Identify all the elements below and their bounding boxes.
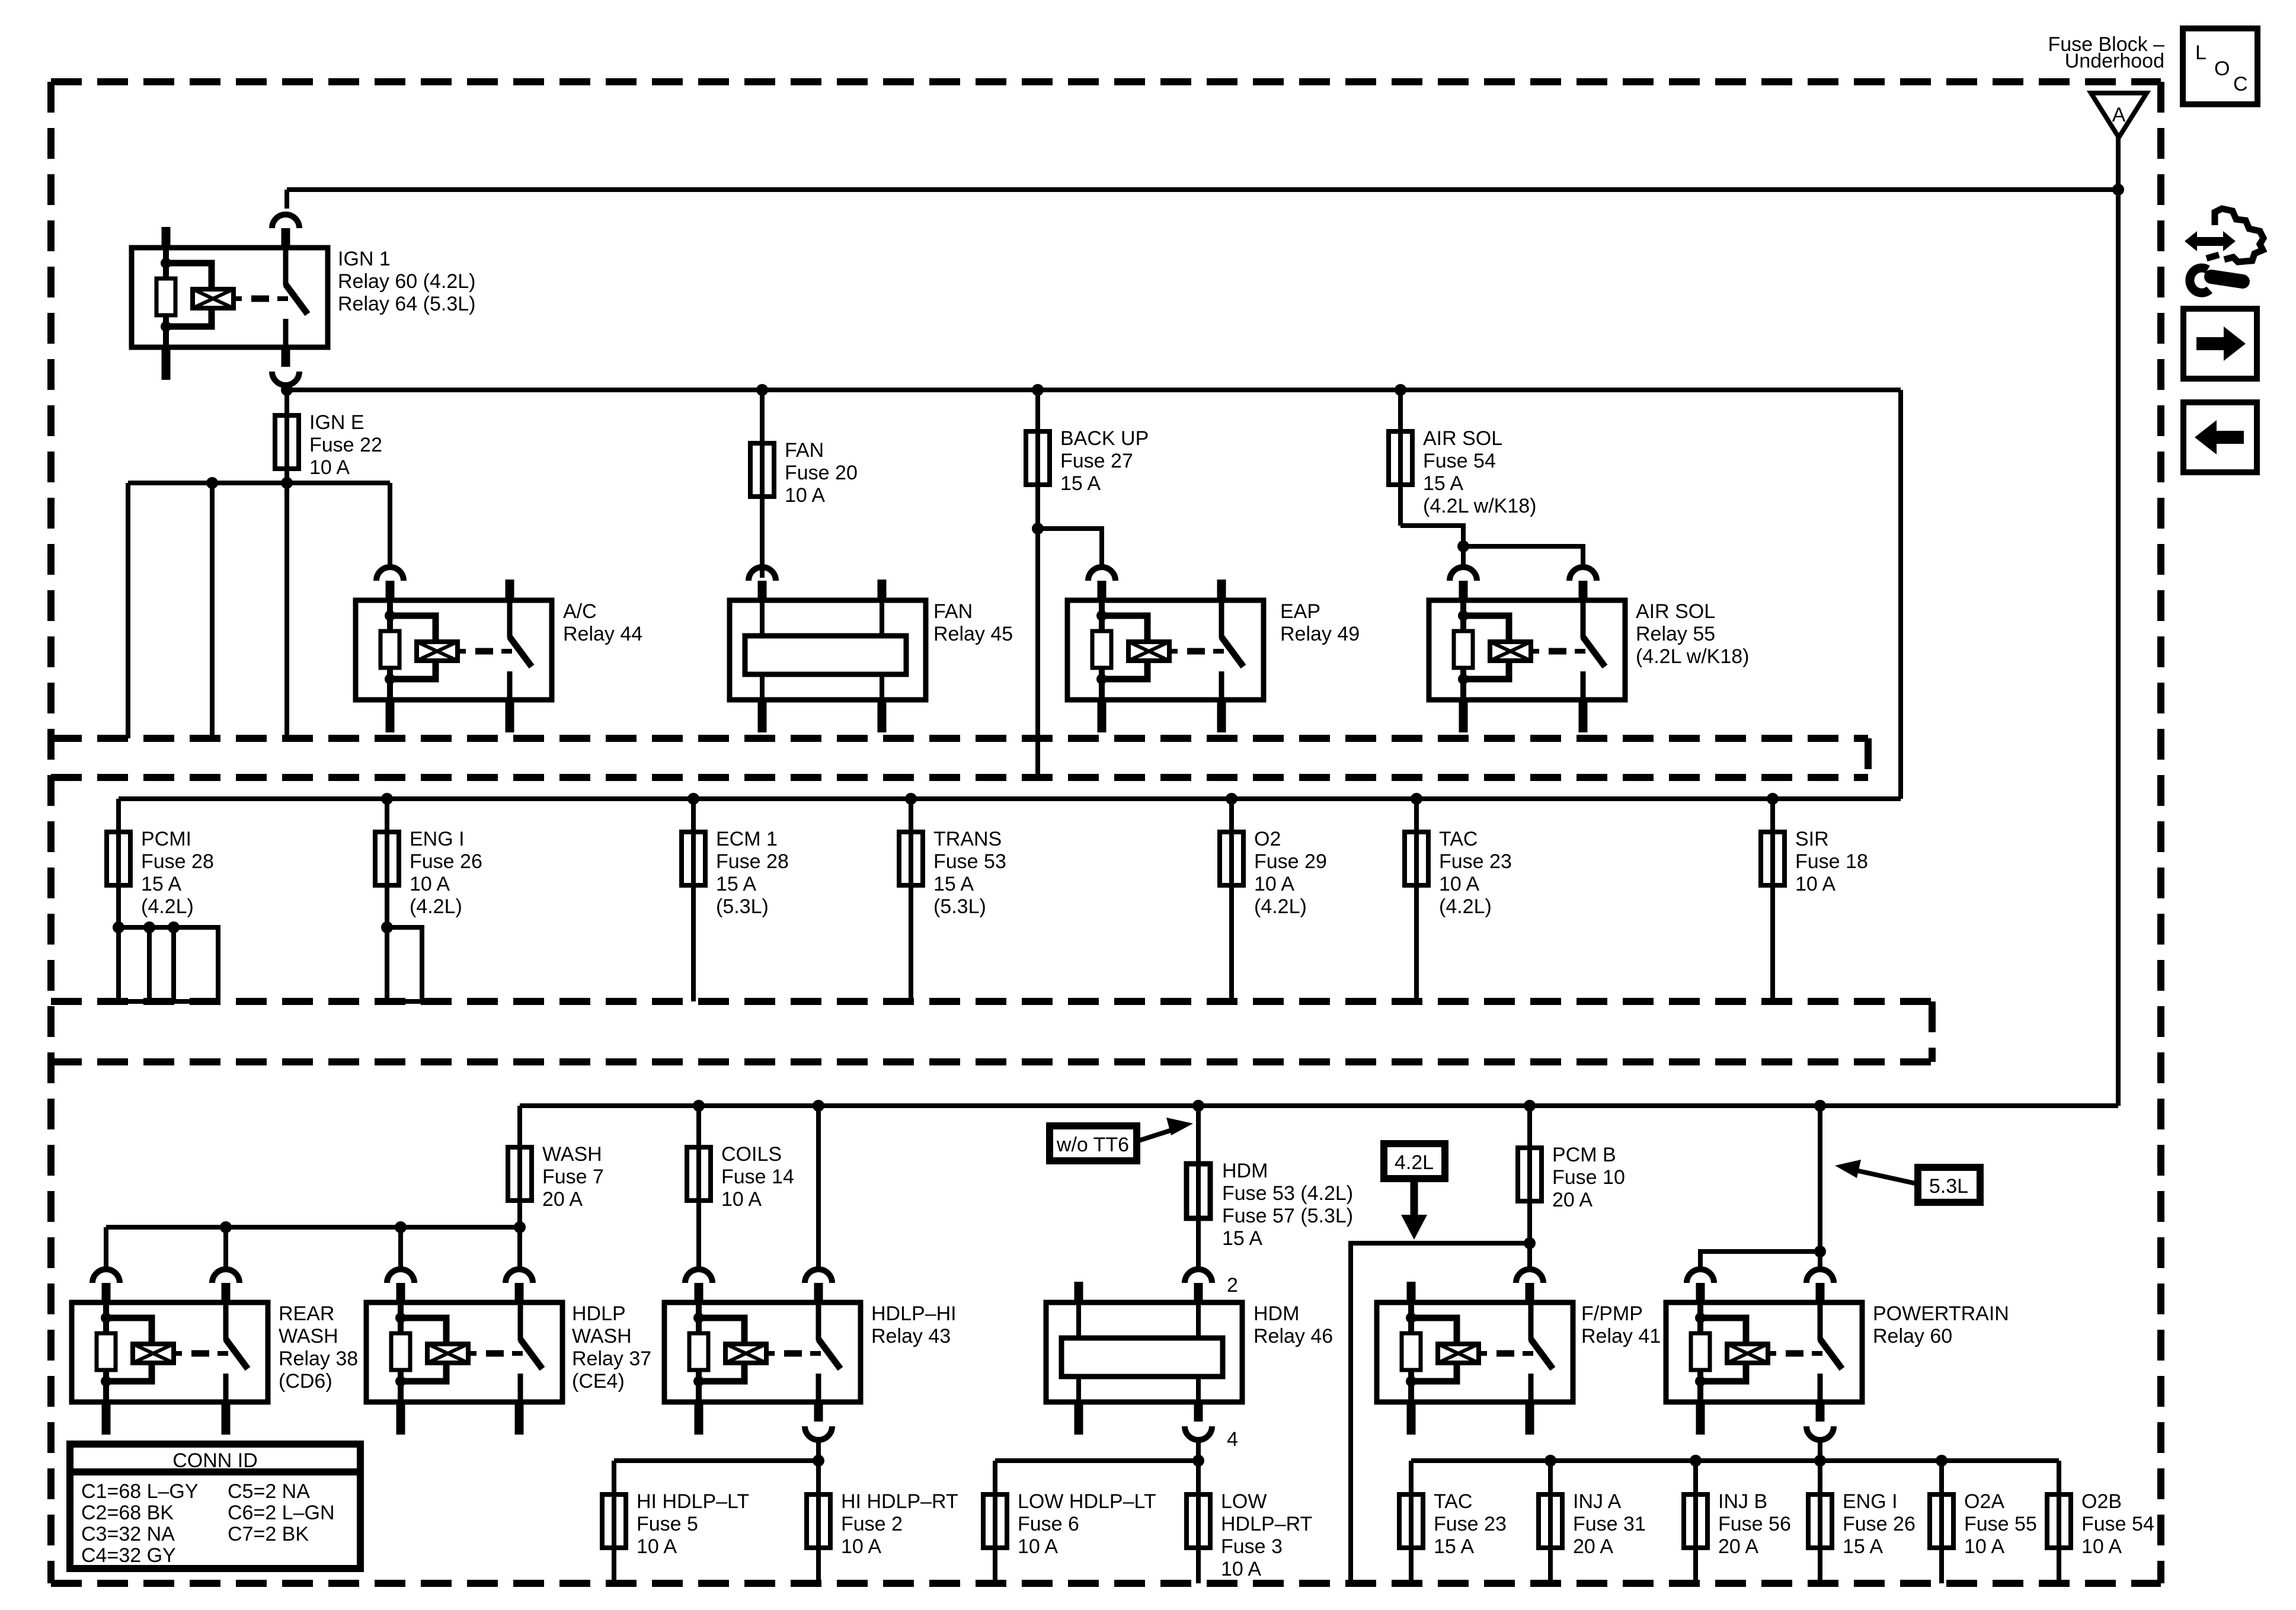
svg-text:10 A: 10 A <box>1439 873 1479 895</box>
wire HDLP-HI switch output <box>816 1441 821 1583</box>
svg-text:20 A: 20 A <box>1552 1189 1593 1211</box>
wire right side down to middle fuse bus <box>1898 390 1903 799</box>
label 4.2L with arrow <box>1384 1144 1445 1179</box>
svg-text:Fuse 2: Fuse 2 <box>841 1513 903 1535</box>
connector run rectangle 1 below PCMI <box>119 927 149 1001</box>
svg-text:10 A: 10 A <box>721 1188 762 1211</box>
svg-text:C2=68 BK: C2=68 BK <box>81 1502 174 1524</box>
svg-text:TRANS: TRANS <box>933 828 1002 850</box>
svg-text:A: A <box>2112 104 2126 126</box>
wire to AIR SOL fuse <box>1395 384 1406 396</box>
relay HDM Relay 46 (motor relay) <box>1046 1269 1242 1440</box>
svg-text:Fuse 53: Fuse 53 <box>933 850 1006 873</box>
fuse IGN E Fuse 22 10 A <box>275 415 299 469</box>
relay F/PMP Relay 41 <box>1377 1269 1573 1435</box>
bus from IGN 1 relay output <box>287 388 1901 392</box>
fuse block outer dashed border bottom edge <box>51 1580 2161 1587</box>
dashed divider jog between section 2 and 3 <box>1929 1001 1936 1062</box>
svg-text:WASH: WASH <box>572 1325 632 1347</box>
fuse COILS Fuse 14 <box>696 1106 701 1269</box>
svg-text:10 A: 10 A <box>410 873 450 895</box>
svg-text:EAP: EAP <box>1280 600 1320 623</box>
wire stub down from IGN E output 1 <box>126 483 130 738</box>
svg-text:4: 4 <box>1227 1428 1238 1451</box>
relay AIR SOL Relay 55 <box>1429 567 1625 732</box>
svg-text:Relay 46: Relay 46 <box>1253 1325 1333 1347</box>
svg-text:POWERTRAIN: POWERTRAIN <box>1873 1302 2009 1325</box>
svg-text:15 A: 15 A <box>716 873 756 895</box>
fuse ECM 1 Fuse 28 <box>691 799 696 1001</box>
left-arrow legend box <box>2183 402 2257 472</box>
svg-text:IGN 1: IGN 1 <box>338 248 391 270</box>
wire to HDLP WASH coil <box>398 1227 403 1269</box>
connector A triangle <box>2091 93 2147 137</box>
fuse PCM B Fuse 10 <box>1527 1106 1532 1269</box>
svg-text:LOW HDLP–LT: LOW HDLP–LT <box>1018 1490 1156 1513</box>
vehicle/service icon <box>2185 209 2263 293</box>
svg-text:F/PMP: F/PMP <box>1581 1302 1643 1325</box>
svg-text:L: L <box>2195 41 2207 64</box>
svg-text:Fuse 31: Fuse 31 <box>1573 1513 1646 1535</box>
svg-text:10 A: 10 A <box>1254 873 1294 895</box>
svg-text:Fuse 54: Fuse 54 <box>2081 1513 2154 1535</box>
fuse TAC Fuse 23 (section 2) <box>1414 799 1419 1001</box>
svg-text:10 A: 10 A <box>785 484 825 507</box>
fuse BACK UP Fuse 27 15 A <box>1026 431 1050 485</box>
svg-text:10 A: 10 A <box>2081 1535 2122 1558</box>
right-arrow legend box <box>2183 309 2257 379</box>
svg-text:15 A: 15 A <box>1434 1535 1474 1558</box>
bottom fuse row bus <box>1411 1458 2059 1463</box>
fuse O2 Fuse 29 <box>1229 799 1234 1001</box>
fuse ENG I Fuse 26 (bottom) <box>1818 1461 1822 1583</box>
svg-text:COILS: COILS <box>721 1143 782 1166</box>
svg-text:SIR: SIR <box>1795 828 1829 850</box>
wire AIR SOL fuse to relay pins <box>1400 526 1463 546</box>
middle section fuse bus <box>119 796 1901 801</box>
fuse INJ B Fuse 56 <box>1693 1461 1698 1583</box>
svg-text:C: C <box>2233 73 2248 95</box>
svg-text:(4.2L): (4.2L) <box>141 895 194 918</box>
svg-text:C1=68 L–GY: C1=68 L–GY <box>81 1480 199 1503</box>
svg-text:5.3L: 5.3L <box>1929 1175 1968 1198</box>
dashed divider: section 2 top edge <box>51 774 1868 781</box>
svg-text:Fuse 54: Fuse 54 <box>1423 450 1496 472</box>
relay IGN 1 (Relay 60 / Relay 64) <box>132 215 328 385</box>
svg-text:Fuse 29: Fuse 29 <box>1254 850 1327 873</box>
label w/o TT6 with arrow <box>1050 1126 1137 1161</box>
fuse LOW HDLP-RT Fuse 3 <box>1187 1494 1210 1548</box>
svg-text:10 A: 10 A <box>1795 873 1835 895</box>
wire to BACK UP fuse <box>1032 384 1044 396</box>
wire stub down from IGN E output 3 <box>284 483 289 738</box>
dashed divider: section 1 bottom edge <box>51 735 1868 742</box>
fuse SIR Fuse 18 <box>1770 799 1775 1001</box>
fuse O2A Fuse 55 <box>1939 1461 1944 1583</box>
svg-text:BACK UP: BACK UP <box>1060 427 1149 450</box>
svg-text:Fuse 28: Fuse 28 <box>716 850 789 873</box>
svg-text:Fuse 23: Fuse 23 <box>1434 1513 1507 1535</box>
svg-text:ECM 1: ECM 1 <box>716 828 778 850</box>
svg-text:20 A: 20 A <box>1573 1535 1613 1558</box>
wire bus to POWERTRAIN relay <box>1818 1106 1822 1269</box>
svg-text:O: O <box>2214 57 2230 80</box>
wire IGN 1 output junction <box>284 386 289 483</box>
wire stub down from IGN E output 2 <box>210 483 215 738</box>
svg-text:Fuse 20: Fuse 20 <box>785 462 858 484</box>
svg-text:FAN: FAN <box>933 600 973 623</box>
fuse block outer dashed border left edge <box>47 82 55 1583</box>
svg-text:Fuse 18: Fuse 18 <box>1795 850 1868 873</box>
fuse LOW HDLP-LT Fuse 6 <box>983 1494 1007 1548</box>
svg-text:PCM B: PCM B <box>1552 1144 1616 1166</box>
fuse HI HDLP-RT Fuse 2 <box>807 1494 830 1548</box>
connector run rectangle 2 below PCMI <box>174 927 218 1001</box>
wire to LOW HDLP-LT fuse <box>993 1461 997 1583</box>
svg-text:20 A: 20 A <box>1718 1535 1758 1558</box>
svg-text:Relay 37: Relay 37 <box>572 1347 651 1370</box>
svg-text:Fuse 10: Fuse 10 <box>1552 1166 1625 1189</box>
svg-text:Fuse 55: Fuse 55 <box>1964 1513 2037 1535</box>
svg-text:Fuse 5: Fuse 5 <box>637 1513 698 1535</box>
svg-text:O2A: O2A <box>1964 1490 2004 1513</box>
svg-text:w/o TT6: w/o TT6 <box>1056 1134 1129 1156</box>
svg-text:15 A: 15 A <box>1222 1227 1262 1250</box>
svg-text:Relay 60: Relay 60 <box>1873 1325 1952 1347</box>
svg-text:TAC: TAC <box>1439 828 1478 850</box>
wire bus to IGN 1 relay <box>287 187 2118 192</box>
svg-text:Relay 38: Relay 38 <box>279 1347 358 1370</box>
svg-text:Relay 44: Relay 44 <box>563 623 642 645</box>
svg-text:(4.2L w/K18): (4.2L w/K18) <box>1423 495 1537 517</box>
svg-text:INJ B: INJ B <box>1718 1490 1767 1513</box>
svg-text:IGN E: IGN E <box>309 411 364 434</box>
svg-text:C4=32 GY: C4=32 GY <box>81 1544 176 1567</box>
svg-text:INJ A: INJ A <box>1573 1490 1622 1513</box>
relay A/C Relay 44 <box>356 567 552 732</box>
fuse O2B Fuse 54 <box>2057 1461 2061 1583</box>
svg-text:REAR: REAR <box>279 1302 334 1325</box>
dashed divider: section 3 top edge <box>51 1058 1932 1065</box>
fuse WASH Fuse 7 <box>517 1106 522 1269</box>
svg-text:10 A: 10 A <box>1018 1535 1058 1558</box>
svg-text:WASH: WASH <box>279 1325 338 1347</box>
svg-text:(4.2L w/K18): (4.2L w/K18) <box>1636 645 1750 668</box>
wire PCM B fuse to F/PMP relay <box>1524 1237 1536 1249</box>
wire to REAR WASH coil <box>104 1227 108 1269</box>
svg-text:ENG I: ENG I <box>410 828 465 850</box>
svg-text:Fuse 26: Fuse 26 <box>1843 1513 1916 1535</box>
svg-text:FAN: FAN <box>785 439 824 462</box>
svg-text:Fuse 14: Fuse 14 <box>721 1166 794 1188</box>
label 5.3L with arrow <box>1918 1167 1980 1202</box>
svg-text:AIR SOL: AIR SOL <box>1423 427 1502 450</box>
CONN ID table <box>70 1444 360 1569</box>
svg-text:Relay 60 (4.2L): Relay 60 (4.2L) <box>338 270 475 293</box>
svg-text:HI HDLP–LT: HI HDLP–LT <box>637 1490 749 1513</box>
svg-text:(4.2L): (4.2L) <box>410 895 462 918</box>
fuse FAN Fuse 20 10 A <box>750 443 774 497</box>
svg-text:Fuse 6: Fuse 6 <box>1018 1513 1079 1535</box>
svg-text:Relay 45: Relay 45 <box>933 623 1013 645</box>
wire bus to HDLP-HI switch <box>816 1106 821 1269</box>
svg-text:Relay 55: Relay 55 <box>1636 623 1715 645</box>
svg-text:PCMI: PCMI <box>141 828 191 850</box>
svg-text:(CD6): (CD6) <box>279 1370 332 1393</box>
wire PCMI fuse output <box>119 925 218 930</box>
relay HDLP-HI Relay 43 <box>664 1269 861 1440</box>
svg-text:(4.2L): (4.2L) <box>1439 895 1492 918</box>
fuse TAC Fuse 23 <box>1409 1461 1414 1583</box>
wire POWERTRAIN switch output <box>1818 1441 1822 1461</box>
fuse PCMI Fuse 28 <box>116 799 121 927</box>
wire 4.2L branch <box>1351 1243 1530 1582</box>
svg-text:C5=2 NA: C5=2 NA <box>228 1480 310 1503</box>
fuse AIR SOL Fuse 54 15 A <box>1389 431 1412 485</box>
wire ENG I fuse output <box>381 921 393 933</box>
relay EAP Relay 49 <box>1067 567 1264 732</box>
svg-text:15 A: 15 A <box>141 873 181 895</box>
relay FAN Relay 45 (motor relay) <box>730 567 926 732</box>
svg-text:C6=2 L–GN: C6=2 L–GN <box>228 1502 335 1524</box>
svg-text:HDM: HDM <box>1253 1302 1299 1325</box>
svg-text:15 A: 15 A <box>933 873 974 895</box>
fuse HDM Fuse 53/57 <box>1196 1106 1201 1269</box>
svg-text:LOW: LOW <box>1221 1490 1267 1513</box>
fuse block outer dashed border right edge <box>2157 82 2164 1583</box>
svg-text:(CE4): (CE4) <box>572 1370 625 1393</box>
svg-text:Fuse 26: Fuse 26 <box>410 850 482 873</box>
svg-text:15 A: 15 A <box>1843 1535 1883 1558</box>
svg-text:Relay 43: Relay 43 <box>871 1325 951 1347</box>
svg-text:Relay 41: Relay 41 <box>1581 1325 1661 1347</box>
svg-text:Fuse 28: Fuse 28 <box>141 850 214 873</box>
wire to A/C relay coil <box>388 483 392 567</box>
relay feed line for wash relays <box>106 1225 520 1230</box>
svg-text:4.2L: 4.2L <box>1395 1151 1434 1174</box>
fuse INJ A Fuse 31 <box>1548 1461 1553 1583</box>
bottom section feed bus <box>520 1103 2118 1108</box>
wire to FAN fuse <box>756 384 768 396</box>
dashed divider jog between section 1 and 2 <box>1865 738 1872 777</box>
wire to REAR WASH switch <box>223 1227 228 1269</box>
svg-text:C3=32 NA: C3=32 NA <box>81 1523 175 1545</box>
wire HDM relay pin 4 output <box>1196 1441 1201 1583</box>
svg-text:A/C: A/C <box>563 600 597 623</box>
svg-text:AIR SOL: AIR SOL <box>1636 600 1715 623</box>
svg-text:HDLP: HDLP <box>572 1302 626 1325</box>
svg-text:CONN ID: CONN ID <box>172 1449 258 1472</box>
dashed divider: section 2 bottom edge <box>51 998 1932 1005</box>
svg-text:15 A: 15 A <box>1060 472 1101 495</box>
svg-text:Relay 64 (5.3L): Relay 64 (5.3L) <box>338 293 475 315</box>
svg-text:Fuse 56: Fuse 56 <box>1718 1513 1791 1535</box>
svg-text:10 A: 10 A <box>841 1535 881 1558</box>
svg-text:Fuse 53 (4.2L): Fuse 53 (4.2L) <box>1222 1182 1353 1205</box>
wire WASH fuse to relay feed line <box>514 1221 526 1233</box>
svg-text:(5.3L): (5.3L) <box>716 895 769 918</box>
svg-text:O2: O2 <box>1254 828 1281 850</box>
svg-text:HDLP–RT: HDLP–RT <box>1221 1513 1312 1535</box>
svg-text:20 A: 20 A <box>542 1188 583 1211</box>
LOC legend box <box>2183 28 2257 104</box>
svg-text:10 A: 10 A <box>309 456 350 479</box>
relay REAR WASH Relay 38 <box>72 1269 268 1435</box>
wire to HI HDLP-LT fuse <box>612 1461 616 1583</box>
svg-text:HDM: HDM <box>1222 1160 1268 1182</box>
wire branch to EAP relay coil <box>1038 529 1102 567</box>
relay HDLP WASH Relay 37 <box>366 1269 562 1435</box>
connector run rectangle below ENG I <box>387 927 422 1001</box>
svg-text:(4.2L): (4.2L) <box>1254 895 1307 918</box>
wire BACK UP fuse down through section border <box>1032 523 1044 534</box>
svg-text:Underhood: Underhood <box>2065 50 2164 72</box>
svg-text:10 A: 10 A <box>637 1535 677 1558</box>
fuse ENG I Fuse 26 <box>385 799 389 927</box>
svg-text:Relay 49: Relay 49 <box>1280 623 1360 645</box>
svg-text:TAC: TAC <box>1434 1490 1472 1513</box>
svg-text:HDLP–HI: HDLP–HI <box>871 1302 957 1325</box>
relay POWERTRAIN Relay 60 <box>1666 1269 1862 1440</box>
svg-text:HI HDLP–RT: HI HDLP–RT <box>841 1490 958 1513</box>
svg-text:Fuse 7: Fuse 7 <box>542 1166 604 1188</box>
svg-text:WASH: WASH <box>542 1143 602 1166</box>
fuse block outer dashed border top edge <box>51 78 2161 85</box>
svg-text:Fuse 22: Fuse 22 <box>309 434 382 456</box>
svg-text:15 A: 15 A <box>1423 472 1463 495</box>
svg-text:ENG I: ENG I <box>1843 1490 1898 1513</box>
svg-text:10 A: 10 A <box>1964 1535 2004 1558</box>
svg-text:10 A: 10 A <box>1221 1558 1261 1580</box>
svg-text:O2B: O2B <box>2081 1490 2122 1513</box>
svg-text:Fuse 57 (5.3L): Fuse 57 (5.3L) <box>1222 1205 1353 1227</box>
fuse PCMI <box>107 832 130 885</box>
svg-text:Fuse 27: Fuse 27 <box>1060 450 1133 472</box>
fuse TRANS Fuse 53 <box>909 799 913 1001</box>
svg-text:(5.3L): (5.3L) <box>933 895 986 918</box>
svg-text:2: 2 <box>1227 1274 1238 1297</box>
wire from connector A down right side <box>2116 137 2121 1106</box>
svg-text:Fuse 3: Fuse 3 <box>1221 1535 1283 1558</box>
wire IGN E fuse output <box>128 481 390 485</box>
fuse HI HDLP-LT Fuse 5 <box>602 1494 626 1548</box>
svg-text:C7=2 BK: C7=2 BK <box>228 1523 309 1545</box>
svg-text:Fuse 23: Fuse 23 <box>1439 850 1512 873</box>
